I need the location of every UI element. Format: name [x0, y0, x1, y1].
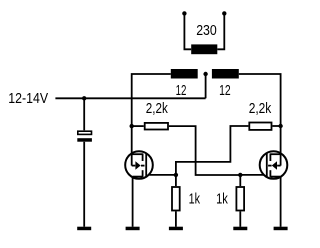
transistor Q1 (left MOSFET) — [125, 151, 153, 179]
wire: right MOSFET gate lead — [240, 174, 264, 176]
wire: left gate node to 1k resistor — [175, 175, 177, 186]
wire: right 2,2k to left MOSFET gate node (cross-coupling) — [176, 126, 249, 175]
wire: left drain node to resistor 2,2k left — [132, 125, 144, 127]
ground (right MOSFET source) — [274, 227, 288, 231]
node: left drain / resistor junction dot — [130, 124, 134, 128]
ground (left MOSFET source) — [126, 227, 140, 231]
transformer secondary winding right (12V) — [212, 69, 239, 79]
wire: right 1k to ground — [239, 211, 241, 226]
transistor Q2 (right MOSFET) — [260, 151, 288, 179]
resistor 2,2k (left) — [145, 123, 168, 130]
svg-text:2,2k: 2,2k — [249, 101, 272, 117]
wire: left MOSFET gate lead — [150, 174, 176, 176]
wire: right secondary end to right MOSFET drain — [239, 74, 281, 166]
wire: right gate node to 1k resistor — [239, 175, 241, 186]
svg-text:1k: 1k — [216, 192, 228, 208]
resistor 1k (right) — [236, 187, 244, 211]
wire: right MOSFET source to ground — [280, 177, 282, 227]
wire: 12-14V supply rail — [55, 97, 205, 99]
wire: capacitor to ground — [83, 142, 85, 227]
svg-text:12: 12 — [176, 83, 187, 99]
wire: right drain node to resistor 2,2k right — [272, 125, 280, 127]
wire: left 1k to ground — [175, 211, 177, 226]
transformer primary terminal dot (right) — [222, 11, 226, 15]
node: right drain / resistor junction dot — [278, 124, 282, 128]
svg-text:2,2k: 2,2k — [146, 101, 169, 117]
ground (left 1k) — [169, 227, 183, 231]
transformer secondary winding left (12V) — [171, 69, 198, 79]
wire: left secondary end to left MOSFET drain (crosses supply rail, no junction) — [132, 74, 171, 166]
node: right gate junction dot — [238, 173, 242, 177]
wire: center tap down to supply rail — [205, 74, 207, 98]
ground (capacitor) — [77, 227, 91, 231]
wire: left MOSFET source to ground — [132, 177, 134, 227]
wire: left primary terminal to primary winding — [184, 13, 191, 49]
svg-text:12-14V: 12-14V — [8, 91, 48, 107]
svg-text:230: 230 — [196, 23, 217, 39]
node: left gate junction dot — [174, 173, 178, 177]
node: supply rail / capacitor junction dot — [82, 96, 86, 100]
wire: left 2,2k to right MOSFET gate node (crosses cross-coupling wire) — [169, 126, 240, 175]
svg-text:1k: 1k — [189, 192, 201, 208]
capacitor C1 negative plate (solid) — [77, 138, 92, 142]
resistor 1k (left) — [172, 187, 180, 211]
capacitor C1 positive plate (hollow) — [78, 131, 92, 134]
ground (right 1k) — [233, 227, 247, 231]
wire: supply rail down to capacitor — [83, 98, 85, 130]
resistor 2,2k (right) — [249, 123, 271, 130]
transformer primary winding — [191, 44, 217, 54]
wire: right primary terminal to primary winding — [217, 13, 224, 49]
transformer primary terminal dot (left) — [182, 11, 186, 15]
svg-text:12: 12 — [219, 83, 231, 99]
node: secondary center tap junction dot — [203, 72, 207, 76]
